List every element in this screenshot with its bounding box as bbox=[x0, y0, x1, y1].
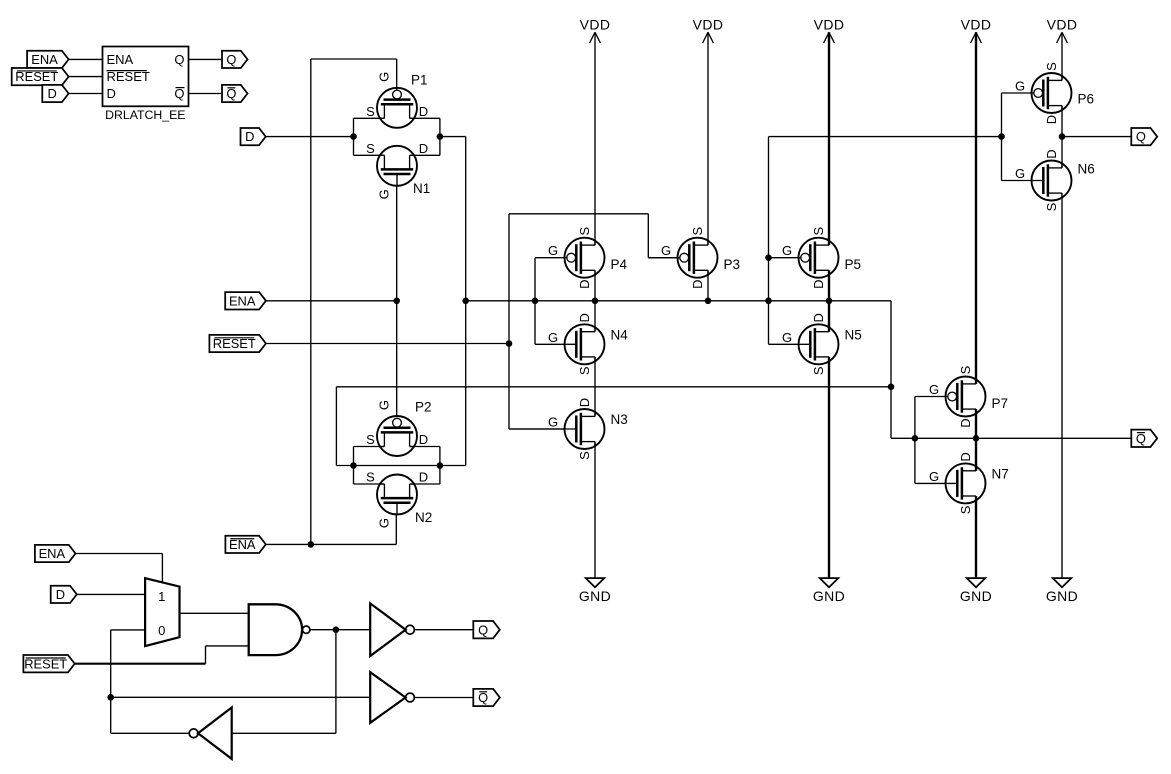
svg-text:G: G bbox=[1015, 79, 1025, 94]
svg-text:N6: N6 bbox=[1078, 162, 1095, 177]
svg-text:VDD: VDD bbox=[1047, 17, 1078, 33]
svg-text:S: S bbox=[366, 141, 375, 156]
svg-text:D: D bbox=[419, 104, 428, 119]
svg-text:N7: N7 bbox=[992, 466, 1009, 481]
svg-text:G: G bbox=[548, 415, 558, 430]
svg-text:D: D bbox=[811, 313, 826, 322]
svg-text:P5: P5 bbox=[845, 257, 862, 272]
svg-text:D: D bbox=[419, 141, 428, 156]
svg-text:P7: P7 bbox=[992, 396, 1009, 411]
svg-text:D: D bbox=[1044, 115, 1059, 124]
svg-text:GND: GND bbox=[1046, 588, 1078, 604]
svg-text:G: G bbox=[377, 189, 392, 199]
svg-text:P1: P1 bbox=[411, 72, 428, 87]
svg-text:G: G bbox=[377, 72, 392, 82]
svg-text:Q: Q bbox=[174, 86, 184, 101]
svg-text:D: D bbox=[47, 86, 56, 101]
svg-text:GND: GND bbox=[960, 588, 992, 604]
svg-text:D: D bbox=[56, 587, 65, 602]
svg-text:G: G bbox=[548, 330, 558, 345]
svg-text:N3: N3 bbox=[611, 412, 628, 427]
svg-text:D: D bbox=[690, 280, 705, 289]
svg-text:RESET: RESET bbox=[107, 69, 150, 84]
svg-text:N5: N5 bbox=[845, 327, 862, 342]
svg-text:G: G bbox=[782, 243, 792, 258]
svg-text:G: G bbox=[548, 243, 558, 258]
svg-text:P6: P6 bbox=[1078, 92, 1095, 107]
svg-text:D: D bbox=[811, 280, 826, 289]
svg-text:VDD: VDD bbox=[580, 17, 611, 33]
svg-text:Q: Q bbox=[1136, 129, 1146, 144]
svg-text:D: D bbox=[577, 280, 592, 289]
svg-text:S: S bbox=[577, 227, 592, 236]
svg-text:N2: N2 bbox=[415, 510, 432, 525]
svg-text:G: G bbox=[1015, 166, 1025, 181]
svg-text:P3: P3 bbox=[724, 257, 741, 272]
svg-text:VDD: VDD bbox=[814, 17, 845, 33]
svg-text:D: D bbox=[1044, 149, 1059, 158]
svg-text:ENA: ENA bbox=[39, 546, 66, 561]
svg-text:Q: Q bbox=[478, 622, 488, 637]
svg-text:S: S bbox=[366, 432, 375, 447]
svg-text:Q: Q bbox=[226, 52, 236, 67]
svg-text:S: S bbox=[811, 366, 826, 375]
svg-text:VDD: VDD bbox=[693, 17, 724, 33]
svg-text:Q: Q bbox=[174, 52, 184, 67]
svg-text:S: S bbox=[1044, 202, 1059, 211]
svg-text:G: G bbox=[661, 243, 671, 258]
svg-text:DRLATCH_EE: DRLATCH_EE bbox=[105, 108, 185, 122]
svg-text:ENA: ENA bbox=[107, 52, 134, 67]
svg-text:D: D bbox=[958, 418, 973, 427]
svg-text:G: G bbox=[782, 330, 792, 345]
svg-text:S: S bbox=[366, 104, 375, 119]
svg-text:G: G bbox=[929, 469, 939, 484]
svg-text:P2: P2 bbox=[415, 400, 432, 415]
svg-text:S: S bbox=[577, 366, 592, 375]
svg-text:0: 0 bbox=[158, 623, 165, 638]
svg-text:D: D bbox=[577, 398, 592, 407]
svg-text:N4: N4 bbox=[611, 327, 629, 342]
svg-text:D: D bbox=[245, 129, 254, 144]
svg-text:ENA: ENA bbox=[31, 52, 58, 67]
svg-text:D: D bbox=[958, 452, 973, 461]
svg-text:G: G bbox=[929, 382, 939, 397]
svg-text:S: S bbox=[958, 505, 973, 514]
svg-text:S: S bbox=[366, 470, 375, 485]
svg-text:D: D bbox=[577, 313, 592, 322]
svg-text:GND: GND bbox=[813, 588, 845, 604]
svg-text:VDD: VDD bbox=[961, 17, 992, 33]
svg-text:N1: N1 bbox=[413, 181, 430, 196]
svg-text:P4: P4 bbox=[611, 257, 628, 272]
svg-text:G: G bbox=[377, 400, 392, 410]
svg-text:S: S bbox=[958, 365, 973, 374]
svg-text:GND: GND bbox=[579, 588, 611, 604]
svg-text:S: S bbox=[811, 227, 826, 236]
svg-text:S: S bbox=[577, 451, 592, 460]
svg-text:1: 1 bbox=[158, 589, 165, 604]
svg-text:ENA: ENA bbox=[229, 293, 256, 308]
svg-text:D: D bbox=[419, 432, 428, 447]
svg-text:S: S bbox=[1044, 62, 1059, 71]
svg-text:D: D bbox=[419, 470, 428, 485]
svg-text:D: D bbox=[107, 86, 116, 101]
svg-text:G: G bbox=[377, 518, 392, 528]
svg-text:S: S bbox=[690, 227, 705, 236]
